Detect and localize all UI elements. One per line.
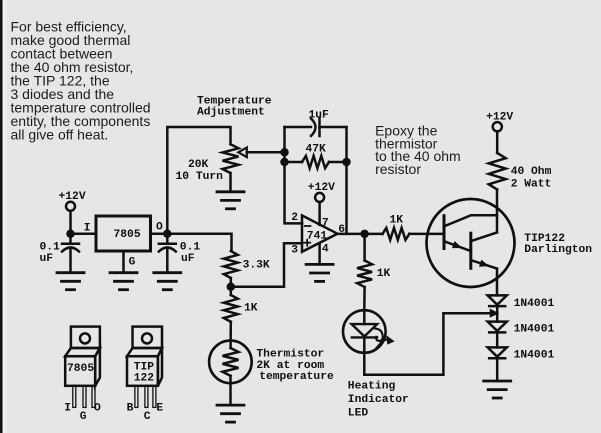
svg-text:E: E [156, 403, 163, 415]
Q1b emitter [472, 261, 497, 269]
svg-text:uF: uF [40, 253, 54, 265]
svg-text:Thermistor: Thermistor [256, 349, 324, 361]
svg-text:all give off heat.: all give off heat. [11, 126, 109, 142]
svg-text:20K: 20K [188, 159, 209, 171]
potentiometer R1 20K 10 Turn [223, 144, 239, 173]
Q1b collector [472, 232, 497, 240]
svg-text:TIP: TIP [134, 361, 155, 373]
thermistor RT1 circle [209, 341, 252, 384]
resistor R3 1K (base drive) [383, 228, 410, 240]
svg-text:10 Turn: 10 Turn [176, 171, 224, 183]
op-amp U1 741 triangle [302, 215, 337, 251]
svg-text:47K: 47K [306, 144, 327, 156]
svg-text:I: I [84, 223, 91, 235]
svg-text:741: 741 [307, 231, 328, 243]
diode D1 1N4001 [488, 295, 507, 304]
Q1a emitter [445, 242, 470, 251]
op-amp pin4 wire to ground [318, 243, 321, 264]
svg-text:0.1: 0.1 [180, 241, 201, 253]
Q1a collector [445, 215, 497, 226]
Q1a base bar [443, 216, 446, 249]
wire collector rail [496, 190, 499, 233]
wire thermistor to ground [229, 376, 232, 405]
svg-text:Darlington: Darlington [524, 244, 592, 256]
ground (pot) [217, 192, 244, 209]
package drawing 7805 TO-220 tab [71, 327, 100, 348]
wire pot bottom to ground [229, 173, 232, 192]
svg-text:1K: 1K [244, 303, 258, 315]
svg-text:temperature: temperature [259, 371, 334, 383]
wire 1K to TIP122 base [409, 233, 444, 236]
svg-text:1uF: 1uF [309, 109, 330, 121]
+12V terminal (op-amp pin7) [315, 193, 324, 202]
package TIP122 pins [135, 386, 156, 408]
wire +12V to 40 ohm [496, 131, 499, 153]
wire D3 to ground [496, 358, 499, 381]
wire output node right then down to 3.3K [167, 234, 231, 251]
svg-text:1N4001: 1N4001 [514, 349, 555, 361]
svg-text:B: B [127, 403, 134, 415]
resistor R5 1K (to thermistor) [224, 295, 238, 322]
svg-text:122: 122 [134, 373, 155, 385]
node: 3.3K / 1K junction [228, 284, 234, 290]
svg-text:6: 6 [338, 224, 345, 236]
svg-text:0.1: 0.1 [40, 241, 61, 253]
diode D2 1N4001 [488, 322, 507, 331]
LED cathode bar [352, 336, 377, 338]
arrow into diode node [490, 309, 500, 318]
transistor Q1 TIP122 circle [427, 199, 515, 287]
svg-text:+12V: +12V [59, 191, 86, 203]
LED anode wire [363, 310, 366, 324]
LED D4 circle [343, 310, 386, 353]
svg-text:1K: 1K [390, 214, 404, 226]
resistor R4 3.3K [224, 251, 238, 278]
wire pin6 output [337, 233, 383, 236]
svg-text:1N4001: 1N4001 [514, 298, 555, 310]
node: 47K left [282, 159, 288, 165]
ground (op-amp pin4) [306, 264, 333, 281]
wire feedback left vertical to op-amp pin2 [285, 127, 303, 223]
wire node to 1K [230, 287, 233, 295]
svg-text:7805: 7805 [114, 229, 141, 241]
op-amp pin7 supply wire [318, 202, 321, 225]
svg-text:1K: 1K [377, 268, 391, 280]
svg-text:resistor: resistor [375, 161, 421, 177]
wire input node to 7805 [71, 232, 97, 235]
node: wiper joins inverting net [282, 149, 288, 155]
Q1b base bar [469, 233, 472, 268]
wire LED to diode chain node [364, 313, 490, 375]
node: output junction [362, 231, 368, 237]
svg-text:40 Ohm: 40 Ohm [511, 166, 552, 178]
svg-text:7805: 7805 [67, 363, 94, 375]
svg-text:uF: uF [181, 253, 195, 265]
wire 7805 G pin to ground [122, 251, 125, 273]
wire 1K to LED [363, 287, 366, 310]
wire feedback top left segment [285, 126, 312, 129]
left page edge [0, 0, 3, 433]
svg-text:O: O [156, 222, 163, 234]
svg-text:Adjustment: Adjustment [197, 106, 265, 118]
svg-text:+12V: +12V [308, 182, 335, 194]
capacitor C1 0.1uF (input) [69, 234, 72, 243]
ground (C2) [154, 273, 181, 290]
resistor R7 40 Ohm 2 Watt [489, 153, 506, 190]
LED light arrow [375, 329, 382, 341]
ground (C1) [57, 273, 84, 290]
resistor R6 1K (LED) [357, 261, 372, 288]
node: 7805 input junction [68, 231, 74, 237]
LED cathode wire [363, 337, 366, 374]
package drawing 7805 body [65, 356, 95, 386]
pot wiper arrow [238, 148, 247, 158]
svg-text:G: G [80, 411, 87, 423]
wire pin3 from 3.3K/1K node [231, 243, 302, 287]
+12V terminal (40 ohm) [493, 122, 502, 131]
svg-text:3.3K: 3.3K [243, 259, 270, 271]
svg-text:2K at room: 2K at room [256, 360, 324, 372]
node: 7805 output junction [164, 231, 170, 237]
wire D1 to D2 [496, 306, 499, 322]
op-amp plus sign [304, 240, 310, 246]
svg-text:C: C [144, 411, 151, 423]
package drawing TIP122 body [127, 356, 158, 386]
svg-text:4: 4 [322, 243, 329, 255]
wire 3.3K to node [230, 278, 233, 287]
ground (thermistor) [217, 405, 244, 422]
svg-text:Indicator: Indicator [348, 394, 409, 406]
wire output node up and right to pot top [167, 127, 230, 234]
svg-text:3: 3 [291, 245, 298, 257]
svg-text:Heating: Heating [348, 381, 396, 393]
wire wiper to feedback node [247, 151, 285, 154]
regulator U2 7805 box [96, 216, 151, 251]
wire feedback top right segment [320, 126, 347, 129]
package drawing TIP122 TO-220 tab [133, 327, 163, 348]
ground (diodes) [484, 381, 511, 398]
svg-text:2: 2 [291, 212, 298, 224]
wire 7805 out to output node [151, 232, 168, 235]
svg-text:2 Watt: 2 Watt [511, 179, 552, 191]
svg-text:O: O [94, 403, 101, 415]
capacitor C3 1uF [311, 119, 316, 136]
svg-text:G: G [129, 257, 136, 269]
diode D3 1N4001 [488, 347, 507, 356]
resistor R2 47K [285, 161, 303, 164]
op-amp minus sign [305, 225, 311, 227]
svg-text:I: I [64, 403, 71, 415]
wire feedback right vertical to output [345, 127, 348, 234]
wire D2 to D3 [496, 332, 499, 347]
svg-text:1N4001: 1N4001 [514, 323, 555, 335]
capacitor C2 0.1uF (output) [166, 234, 169, 243]
node: 47K right [344, 159, 350, 165]
svg-text:+12V: +12V [486, 111, 513, 123]
wire 1K to thermistor [229, 322, 232, 348]
ground (7805 G) [110, 273, 137, 290]
wire terminal to input node [69, 211, 72, 234]
+12V terminal (7805 input) [66, 202, 75, 211]
svg-text:LED: LED [348, 407, 369, 419]
wire output node down to LED resistor [363, 234, 366, 261]
svg-text:7: 7 [322, 218, 329, 230]
thermistor zigzag [223, 348, 239, 376]
package 7805 pins [73, 386, 95, 408]
wire emitter rail [496, 269, 499, 296]
LED triangle [352, 324, 378, 336]
